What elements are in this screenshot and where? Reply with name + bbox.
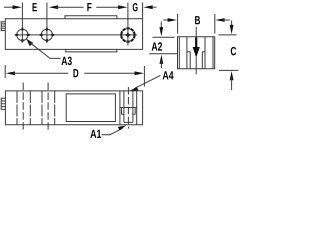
leader A3 (26, 39, 33, 47)
hole2 centerline (47, 83, 49, 133)
inner edge line right (212, 37, 214, 69)
connector tab top view (1, 22, 5, 31)
label A4 (163, 71, 174, 79)
body outline top view (5, 19, 142, 50)
load arrow down in slot (193, 47, 200, 58)
dimension E (4, 6, 15, 8)
dimension A2 (153, 36, 175, 38)
inner edge line left (178, 37, 180, 69)
extension line right edge (142, 3, 144, 19)
slot bottom tick (124, 121, 133, 123)
slot step ticks (187, 51, 205, 53)
label A3 (62, 57, 72, 65)
inner wall right (204, 37, 206, 69)
top lip (65, 16, 117, 19)
load button column (120, 91, 137, 125)
hole A3 circle 1 (17, 29, 28, 40)
dimension F (49, 5, 58, 9)
label E (33, 3, 37, 11)
label F (87, 3, 91, 11)
bottom lip (66, 49, 117, 52)
extension line hole1 (21, 3, 23, 43)
inner wall left (186, 37, 188, 69)
hole circle 2 (41, 29, 52, 40)
extension line hole3 (127, 3, 129, 46)
center slot (190, 52, 202, 69)
pocket rectangle (66, 94, 115, 122)
label C (231, 47, 236, 55)
hole1 centerline (22, 83, 24, 133)
label A2 (152, 42, 162, 50)
hole2 hidden lines (42, 91, 55, 125)
end view outline (178, 37, 215, 69)
horizontal centerline through holes (15, 34, 137, 36)
narrow slot (124, 108, 133, 123)
column centerline (127, 87, 129, 129)
extension line hole2 (46, 3, 48, 43)
bold center tick marks hole2 (40, 28, 55, 42)
side view outline (5, 91, 142, 125)
connector tab side view (1, 98, 5, 109)
column slot (124, 91, 133, 108)
leader A1 (102, 128, 123, 134)
label G (133, 3, 138, 11)
bold center tick marks hole1 (15, 28, 30, 42)
center line vertical end view (195, 27, 197, 74)
label B (195, 16, 200, 24)
hole1 hidden lines (17, 91, 30, 125)
dimension C (219, 34, 237, 36)
dimension B (163, 19, 170, 21)
hole 3 threaded thick ring (121, 28, 134, 41)
thread relief flares (122, 108, 136, 114)
label A1 (90, 130, 101, 138)
leader A4 to side view (135, 75, 161, 88)
counterbore shoulder (119, 107, 136, 109)
label D (73, 69, 78, 77)
dimension D (4, 65, 6, 78)
